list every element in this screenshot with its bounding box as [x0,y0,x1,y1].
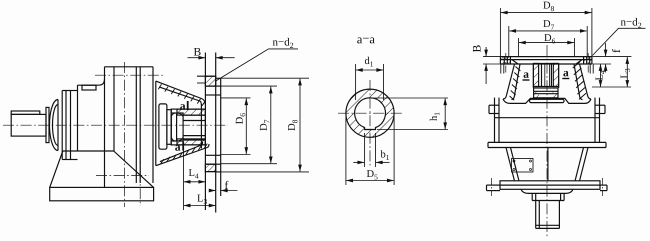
flange corner chamfer right [576,60,582,64]
label D8 (left view) [288,120,297,131]
seal box [534,88,558,98]
section centerline vertical [369,80,371,168]
bell mount rear vertical [155,81,157,166]
bell bottom outer wall [156,144,209,166]
bolt centerline right [587,53,589,74]
input shaft key [11,111,40,114]
top plug boss [82,85,96,90]
shaft collar [46,107,49,142]
bell top outer wall [156,81,206,104]
flange mid line [500,59,592,61]
dim b1 [364,133,366,167]
input shaft (vertical) [535,201,537,229]
common bottom extension line [592,86,631,88]
flange bolt hole left [503,57,505,64]
wire: body vertical centerline [124,62,126,207]
flange top face [500,56,592,58]
dim L3 (left view) [184,205,216,207]
label B (left view) [194,48,201,56]
section mark a right (right view) [563,71,568,77]
hub bottom hatch band [177,139,205,145]
bolt shank left [500,64,502,74]
leader n-d2 (right view) [592,28,645,55]
section centerline horizontal [338,112,402,114]
body joint line [495,117,600,119]
dim D5 [345,113,347,185]
dim D7 (right view) [508,26,510,57]
label b1 (section) [381,150,390,160]
dim D8 (left view) [221,77,309,79]
body bottom band [488,141,606,143]
label d1 (section) [365,57,373,67]
label a-a (section) [357,37,375,43]
label D5 (section) [367,170,378,179]
label D6 (right view) [544,34,555,43]
housing left edge [77,85,79,151]
pedestal left slant [50,151,63,187]
bell left wall [503,64,515,99]
section mark a bottom (left view) [175,145,180,151]
flange bottom face [500,63,592,65]
label D7 (left view) [260,120,269,131]
pilot boss [220,78,222,196]
bell right wall [580,64,592,99]
right view vertical centerline [546,45,548,238]
bottom rounded boss [521,189,573,193]
label D8 (right view) [543,2,554,11]
flange right edge [591,57,593,64]
base bolt centerline left [491,178,493,196]
bell right wall hatch [573,62,586,100]
bell left wall hatch [510,67,521,101]
flange bolt hole right [583,57,585,64]
wire: main horizontal centerline [3,124,228,126]
hub bore lines [183,114,205,116]
bearing cap dome outer [50,100,59,151]
bell bottom wall hatch [161,144,208,164]
wire: foot-hole vertical centerline [139,153,141,206]
bearing cap top edge [62,90,77,92]
label L4 (left view) [189,169,199,178]
flange left edge [499,57,501,64]
inner bearing ring (rounded) [159,104,167,149]
dim f (right view) [593,56,632,58]
dim L4 (left view) [183,150,185,210]
dim D6 (right view) [518,38,520,57]
label f (right view) [612,49,620,52]
label h1 (section) [430,112,440,120]
shaft collar [531,193,533,200]
bolt shank right [589,64,591,74]
flange front face [204,53,206,211]
bell neck wall [200,104,202,149]
bell bottom inner wall [160,142,203,162]
body top contour [503,98,591,103]
input shaft [11,114,46,136]
section mark bars (left view) [182,101,188,151]
label n-d2 (left view) [273,38,294,48]
wire: upper horizontal centerline [95,74,164,76]
base bolt centerline right [602,178,604,196]
body walls [494,98,496,143]
leader n-d2 (left view) [216,49,298,81]
flange face short edge lines [197,82,205,84]
output hub outer [171,109,205,145]
bearing cap dome inner [53,105,58,146]
dim D7 (left view) [221,85,277,87]
label L3 (right view) [621,69,630,79]
hub section annulus hatched [346,89,394,137]
bolt centerline left [505,53,507,74]
end washer [167,110,171,145]
retaining bolt head [171,113,183,141]
hub outer circle [346,89,394,137]
flange bolt hole top [205,85,220,87]
top groove bar [530,99,565,102]
label B (right view) [473,45,481,52]
bearing cap bottom edge [62,159,77,161]
housing verticals [104,67,106,188]
dim f (left view) [209,190,216,192]
dim d1 [355,64,357,100]
flange bottom edge [205,171,215,173]
label f (left view) [225,181,228,189]
dim B (right view) [483,56,500,58]
bearing rings below bore [533,86,558,88]
hub top line [533,63,558,65]
hub wall strips [533,64,538,87]
label L4 (right view) [596,70,605,80]
bell top inner wall [159,87,201,105]
section mark a left (right view) [524,72,529,78]
base plate [50,187,154,200]
flange rear face [215,53,217,213]
upper housing section top [105,66,154,68]
dim D6 (left view) [221,97,251,99]
label n-d2 (right view) [621,18,642,28]
flange hatch bottom [205,164,215,171]
dim L3 (right view) [626,57,628,87]
flange bolt hole bottom [205,154,220,156]
label D7 (right view) [543,20,554,29]
dim h1 [372,97,448,99]
section mark underlines (right view) [523,78,570,81]
label L3 (left view) [197,195,207,204]
flange top edge [197,75,216,77]
base right tab [600,184,607,186]
label D6 (left view) [236,113,245,124]
housing bottom [63,150,114,152]
skirt left slants [506,148,515,182]
pedestal right slant [114,151,154,187]
housing top with fillet [78,79,105,85]
skirt right slants [580,148,589,182]
skirt center rib [547,148,549,182]
dim B (left view) [188,57,206,59]
dim L4 (right view) [600,64,602,87]
flange corner chamfer left [512,60,518,64]
base left tab [487,184,501,186]
base plate [500,181,600,190]
hub top hatch band [177,109,205,115]
hub bore circle with keyway [355,98,386,130]
body right lug [595,104,605,106]
bell top wall hatch [158,84,205,106]
flange hatch top [205,76,215,86]
hub bore walls [541,64,543,87]
body left lug [489,104,499,106]
wire: foot-hole horizontal centerline [96,174,149,176]
dim D8 (right view) [499,8,501,57]
inspection window [512,159,534,173]
bearing cap verticals [57,100,59,151]
section mark a top (left view) [180,104,185,110]
